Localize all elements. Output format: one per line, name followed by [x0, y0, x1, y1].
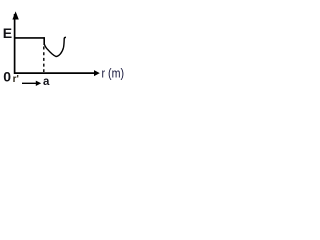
vertical drop at r=a — [43, 37, 45, 45]
svg-text:a: a — [43, 76, 50, 88]
svg-text:r': r' — [13, 74, 19, 85]
distance arrowhead — [36, 81, 41, 86]
distance arrow shaft — [22, 82, 38, 84]
svg-text:0: 0 — [3, 68, 11, 84]
potential well curve — [44, 37, 66, 56]
svg-text:E: E — [3, 25, 12, 41]
y-axis arrowhead — [12, 11, 18, 19]
x-axis arrowhead — [94, 70, 100, 76]
x-axis (r axis) horizontal line — [14, 72, 96, 74]
svg-text:r (m): r (m) — [102, 67, 125, 81]
energy level line at E — [15, 37, 45, 39]
dashed vertical line at r=a — [43, 47, 45, 73]
y-axis (E axis) vertical line — [14, 14, 16, 74]
